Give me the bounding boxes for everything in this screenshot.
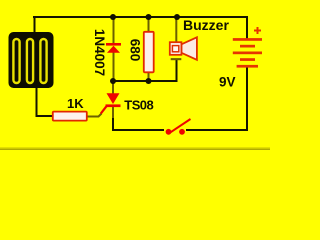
wire battery top lead xyxy=(246,16,248,40)
junction node: 680 bottom xyxy=(146,78,152,84)
wire mid horizontal (SCR anode rail) xyxy=(113,80,178,82)
svg-text:Buzzer: Buzzer xyxy=(183,17,229,33)
wire bottom-left horizontal to 1K xyxy=(36,115,54,117)
thyristor Q1 TS08 (SCR, anode up) xyxy=(101,93,121,113)
svg-text:9V: 9V xyxy=(219,75,236,90)
junction node: buzzer top xyxy=(174,14,180,20)
wire top-left vertical (sensor top lead) xyxy=(34,16,36,34)
junction node: diode bottom / SCR anode xyxy=(110,78,116,84)
resistor R2 680 leads xyxy=(148,18,150,80)
wire battery bottom lead xyxy=(246,66,248,131)
wire bottom rail right (switch to battery) xyxy=(186,129,248,131)
junction node: diode top xyxy=(110,14,116,20)
svg-text:1K: 1K xyxy=(67,96,84,111)
thyristor Q1 leads xyxy=(112,82,114,118)
sensor S1 (heat sensor pad) xyxy=(9,32,54,88)
wire bottom rail left (to switch) xyxy=(112,129,164,131)
resistor R2 680 body xyxy=(144,32,154,73)
battery B1 9V xyxy=(233,38,262,68)
wire top horizontal (+9V rail) xyxy=(33,16,247,18)
buzzer LS1 (speaker symbol) xyxy=(170,37,197,60)
svg-text:680: 680 xyxy=(128,39,143,62)
junction node: 680 top xyxy=(146,14,152,20)
wire SCR cathode to bottom rail xyxy=(112,117,114,131)
svg-text:1N4007: 1N4007 xyxy=(92,29,107,76)
resistor R1 1K body xyxy=(53,112,87,121)
switch SW1 (open) xyxy=(166,119,191,135)
wire speaker bottom vertical xyxy=(176,60,178,82)
diode D1 leads xyxy=(113,18,115,80)
svg-text:TS08: TS08 xyxy=(124,98,153,113)
resistor R1 1K right lead xyxy=(86,114,102,117)
diode D1 (1N4007, cathode up) xyxy=(106,43,121,53)
battery plus sign xyxy=(254,27,261,34)
wire sensor bottom lead xyxy=(36,87,38,116)
buzzer LS1 leads xyxy=(175,18,177,42)
